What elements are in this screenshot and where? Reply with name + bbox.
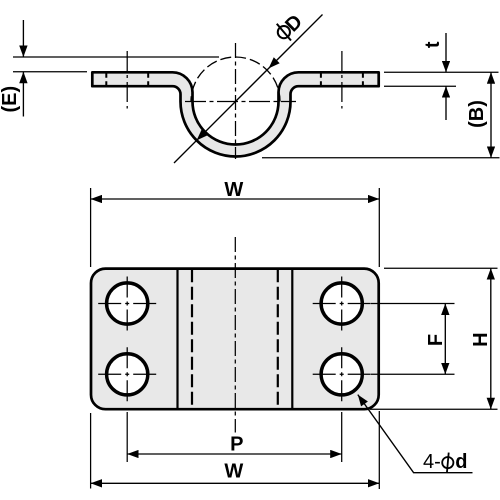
centerline left flange hole	[126, 51, 128, 109]
pipe circle (phantom, upper half)	[191, 57, 280, 102]
t dimension lower arrow	[445, 86, 447, 120]
P dimension line	[127, 453, 342, 455]
H extension line top	[384, 267, 498, 269]
leader line 4-phi-d	[358, 395, 473, 473]
hidden hole edge line (left flange, right)	[147, 73, 149, 86]
hidden bend line left (dashed)	[191, 269, 193, 409]
crosshair bottom-left hole	[98, 373, 156, 375]
W bottom dimension line	[91, 482, 380, 484]
svg-text:(E): (E)	[0, 86, 21, 113]
W top extension line left	[90, 188, 92, 267]
svg-text:P: P	[230, 433, 243, 455]
W bottom extension line right	[378, 411, 380, 489]
base plate	[91, 269, 379, 410]
W top extension line right	[378, 188, 380, 267]
t upper extension line (strip top, shared with (B))	[384, 71, 499, 73]
phi-D diagonal dimension line	[174, 15, 323, 164]
t lower extension line (strip bottom)	[384, 85, 456, 87]
hidden hole edge line (right flange, left)	[320, 73, 322, 86]
(E) upper reference line (saddle inner top tangent)	[13, 56, 219, 58]
hole top-right	[321, 283, 362, 324]
P extension line left	[126, 412, 128, 462]
crosshair top-left hole	[98, 303, 156, 305]
svg-text:(B): (B)	[466, 100, 488, 128]
svg-text:d: d	[455, 451, 467, 473]
t dimension upper arrow	[445, 33, 447, 72]
svg-text:t: t	[422, 41, 444, 48]
F extension line bottom	[371, 373, 455, 375]
vertical centerline of loop	[235, 43, 237, 159]
svg-text:W: W	[224, 179, 243, 201]
leader arrowhead at bottom-right hole	[354, 392, 368, 406]
H extension line bottom	[370, 408, 498, 410]
bend line right (solid)	[291, 269, 293, 410]
vertical centerline of plate	[234, 237, 236, 433]
hole bottom-right	[321, 354, 362, 395]
svg-text:W: W	[224, 460, 243, 482]
clamp body profile (flat strip with downward saddle loop)	[92, 72, 378, 156]
P extension line right	[341, 412, 343, 462]
hidden bend line right (dashed)	[277, 269, 279, 409]
H dimension line	[490, 268, 492, 409]
svg-text:F: F	[425, 334, 447, 346]
(B) lower reference line (loop bottom tangent)	[262, 157, 500, 159]
horizontal centerline of loop	[185, 101, 296, 103]
hidden hole edge line (left flange, left)	[105, 73, 107, 86]
phi-D arrowhead at pipe circle (upper right)	[266, 57, 280, 71]
W top dimension line	[91, 198, 380, 200]
(B) dimension line	[490, 72, 492, 158]
label phi D	[272, 10, 307, 45]
(E) dimension lower arrow	[22, 72, 24, 117]
bend line left (solid)	[176, 269, 178, 410]
W bottom extension line left	[90, 413, 92, 489]
svg-text:4-: 4-	[423, 451, 441, 473]
centerline right flange hole	[341, 51, 343, 109]
F dimension line	[444, 304, 446, 375]
F extension line top	[371, 303, 455, 305]
phi-D arrowhead at outer loop (lower left)	[194, 129, 208, 143]
hole bottom-left	[107, 354, 148, 395]
hole top-left	[107, 283, 148, 324]
(E) dimension upper arrow	[22, 20, 24, 57]
(E) lower reference line (strip top surface)	[13, 71, 87, 73]
svg-text:H: H	[470, 332, 492, 346]
hidden hole edge line (right flange, right)	[362, 73, 364, 86]
crosshair top-right hole	[313, 303, 371, 305]
crosshair bottom-right hole	[313, 373, 371, 375]
